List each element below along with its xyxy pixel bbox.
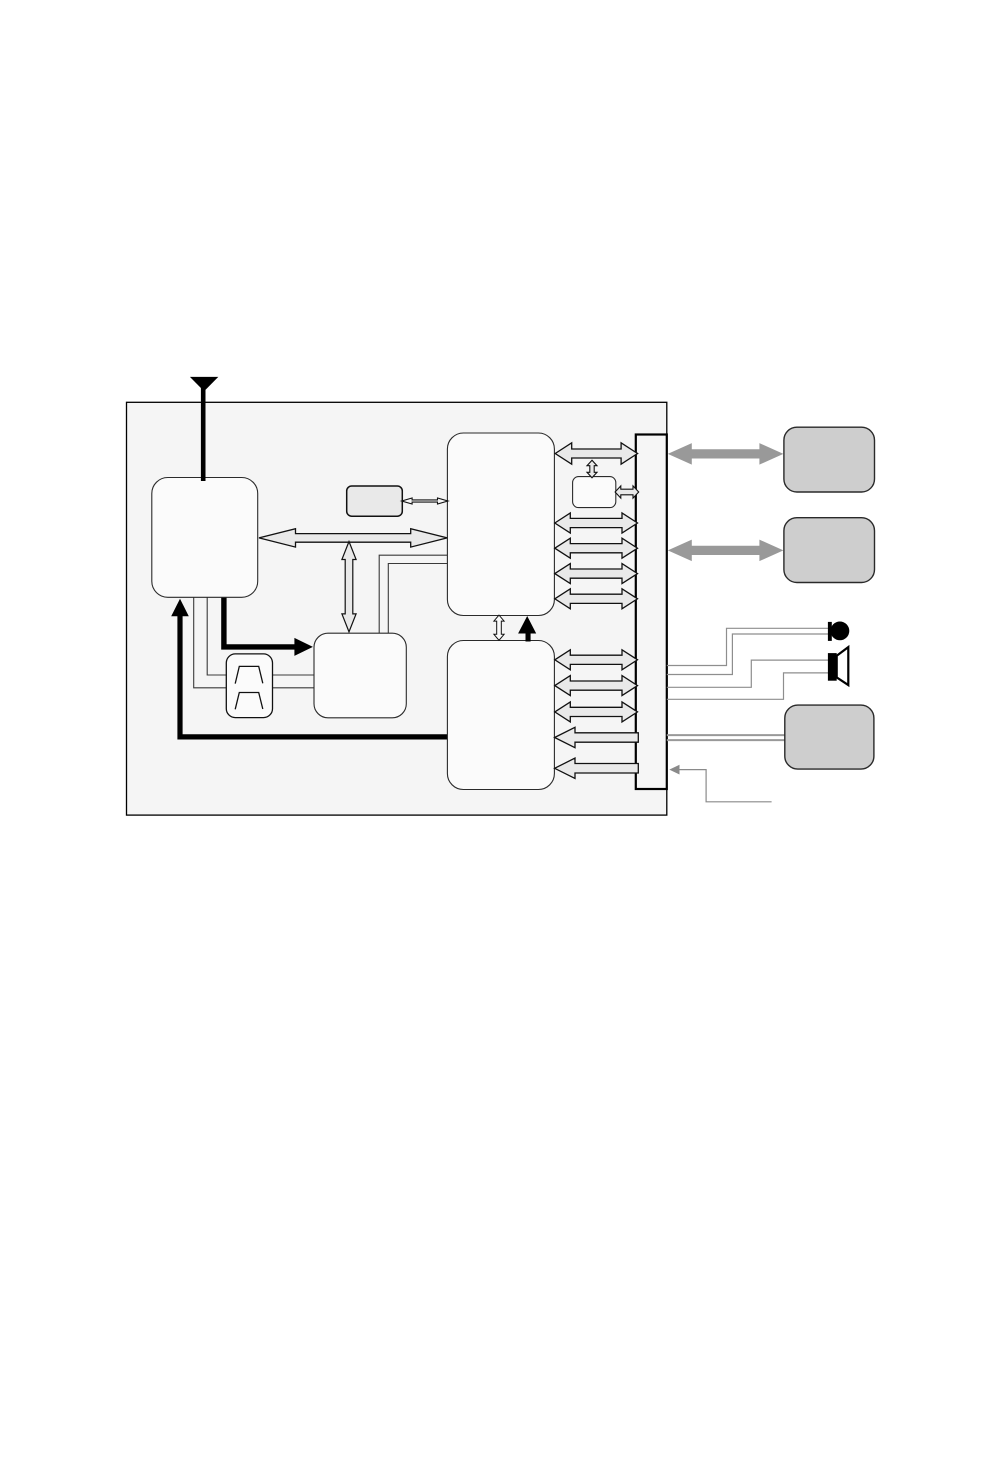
thick wire audio block to RF block: [180, 612, 448, 737]
external box 3 (power): [785, 705, 874, 769]
battery cell symbol (lower): [235, 693, 263, 710]
wire to speaker (upper): [667, 660, 829, 687]
arrowhead into power block: [294, 638, 313, 656]
bus arrow baseband-connector a1: [555, 443, 637, 464]
bus arrow baseband-connector a2: [555, 513, 638, 533]
black arrow audio to baseband: [518, 616, 536, 642]
block audio codec (small): [573, 477, 616, 508]
single arrow into audio block s5: [555, 758, 639, 778]
wire to microphone (lower): [667, 634, 829, 675]
wire to microphone (upper): [667, 628, 831, 665]
speaker icon: [828, 647, 848, 685]
external box 1: [784, 427, 875, 492]
wire power block to baseband (lower): [388, 564, 447, 634]
arrow baseband-audio (vertical small): [494, 615, 504, 640]
antenna feed line: [201, 388, 206, 481]
bus arrow baseband-connector a3: [555, 538, 638, 558]
memory arrow: [402, 498, 448, 504]
thick gray arrow to external box 2: [668, 540, 784, 562]
wire to speaker (lower): [667, 673, 829, 699]
bus arrow audio-connector a6: [555, 650, 638, 670]
bus arrow audio-connector a7: [555, 676, 638, 696]
bus arrow baseband-connector a4: [555, 564, 638, 584]
external box 2: [784, 518, 875, 583]
memory box: [347, 486, 403, 516]
battery cell symbol (upper): [235, 666, 263, 683]
control wire with arrow into connector: [679, 770, 771, 802]
bus arrow RF to baseband: [259, 529, 447, 547]
block RF transceiver: [152, 478, 258, 598]
block power management: [314, 633, 406, 718]
connector bar J1: [636, 435, 667, 790]
bus arrow audio-connector a8: [555, 702, 638, 722]
single arrow into audio block s4: [555, 727, 639, 747]
power pair wire to external box (upper): [667, 734, 785, 736]
arrow baseband to codec (vertical): [587, 460, 597, 478]
bus arrow down to power block: [342, 542, 356, 632]
bus arrow baseband-connector a5: [555, 589, 638, 609]
power pair wire to external box (lower): [667, 739, 785, 741]
microphone icon: [828, 622, 849, 641]
wire RF to battery box (left, lower): [194, 597, 227, 688]
antenna symbol: [190, 377, 218, 391]
wire power block to baseband (upper): [379, 555, 447, 633]
arrowhead into RF block: [171, 599, 189, 616]
battery box: [226, 654, 272, 718]
block baseband processor: [447, 433, 554, 616]
arrow codec to connector: [615, 486, 639, 498]
block audio/interface (lower right): [447, 641, 554, 790]
outer enclosure box: [127, 402, 667, 815]
wire RF to battery box (left, upper): [207, 597, 226, 675]
wire battery box to power block (lower): [273, 687, 315, 689]
wire battery box to power block (upper): [273, 674, 315, 676]
thick gray arrow to external box 1: [668, 443, 784, 465]
thick wire RF block to power block: [224, 597, 296, 647]
